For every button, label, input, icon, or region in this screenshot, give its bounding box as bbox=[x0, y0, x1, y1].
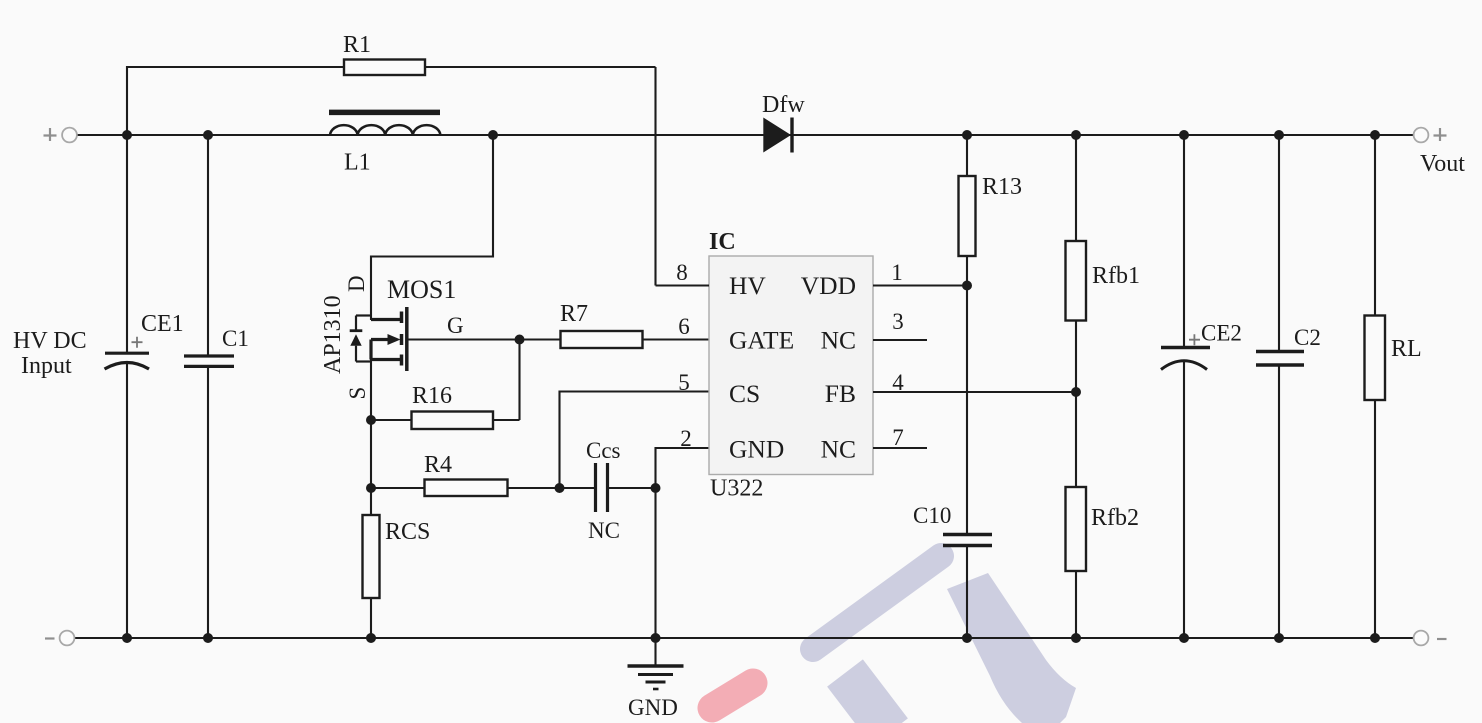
svg-text:2: 2 bbox=[680, 426, 692, 451]
svg-text:R7: R7 bbox=[560, 301, 588, 327]
svg-text:R13: R13 bbox=[982, 174, 1022, 200]
svg-text:GND: GND bbox=[628, 695, 678, 720]
svg-text:Rfb2: Rfb2 bbox=[1091, 505, 1139, 531]
svg-text:NC: NC bbox=[821, 326, 856, 355]
svg-text:8: 8 bbox=[676, 260, 688, 285]
svg-text:CE2: CE2 bbox=[1201, 321, 1242, 346]
svg-text:G: G bbox=[447, 313, 464, 338]
svg-text:VDD: VDD bbox=[801, 271, 856, 300]
svg-text:S: S bbox=[345, 387, 370, 400]
svg-text:4: 4 bbox=[892, 370, 904, 395]
svg-text:Rfb1: Rfb1 bbox=[1092, 263, 1140, 289]
svg-text:GATE: GATE bbox=[729, 326, 794, 355]
svg-text:HV DC: HV DC bbox=[13, 328, 87, 354]
svg-text:GND: GND bbox=[729, 435, 784, 464]
svg-text:RL: RL bbox=[1391, 336, 1422, 362]
svg-text:MOS1: MOS1 bbox=[387, 275, 456, 304]
svg-text:L1: L1 bbox=[344, 150, 371, 176]
svg-text:NC: NC bbox=[821, 435, 856, 464]
svg-text:U322: U322 bbox=[710, 476, 763, 502]
svg-text:Dfw: Dfw bbox=[762, 92, 805, 118]
svg-text:FB: FB bbox=[825, 379, 856, 408]
svg-text:3: 3 bbox=[892, 309, 904, 334]
svg-text:C1: C1 bbox=[222, 326, 249, 351]
svg-text:RCS: RCS bbox=[385, 519, 430, 545]
svg-text:Input: Input bbox=[21, 353, 72, 379]
svg-text:Ccs: Ccs bbox=[586, 438, 621, 463]
svg-text:CE1: CE1 bbox=[141, 311, 184, 337]
svg-text:NC: NC bbox=[588, 518, 620, 543]
svg-text:7: 7 bbox=[892, 425, 904, 450]
svg-text:R4: R4 bbox=[424, 452, 452, 478]
svg-text:Vout: Vout bbox=[1420, 151, 1465, 177]
svg-text:D: D bbox=[344, 275, 369, 292]
svg-text:AP1310: AP1310 bbox=[320, 295, 346, 374]
svg-text:IC: IC bbox=[709, 229, 736, 255]
svg-text:C2: C2 bbox=[1294, 325, 1321, 350]
svg-text:CS: CS bbox=[729, 379, 760, 408]
svg-text:5: 5 bbox=[678, 370, 690, 395]
svg-text:HV: HV bbox=[729, 271, 766, 300]
svg-text:R16: R16 bbox=[412, 383, 452, 409]
svg-text:C10: C10 bbox=[913, 503, 951, 528]
svg-text:1: 1 bbox=[891, 260, 903, 285]
svg-text:6: 6 bbox=[678, 314, 690, 339]
svg-text:R1: R1 bbox=[343, 32, 371, 58]
